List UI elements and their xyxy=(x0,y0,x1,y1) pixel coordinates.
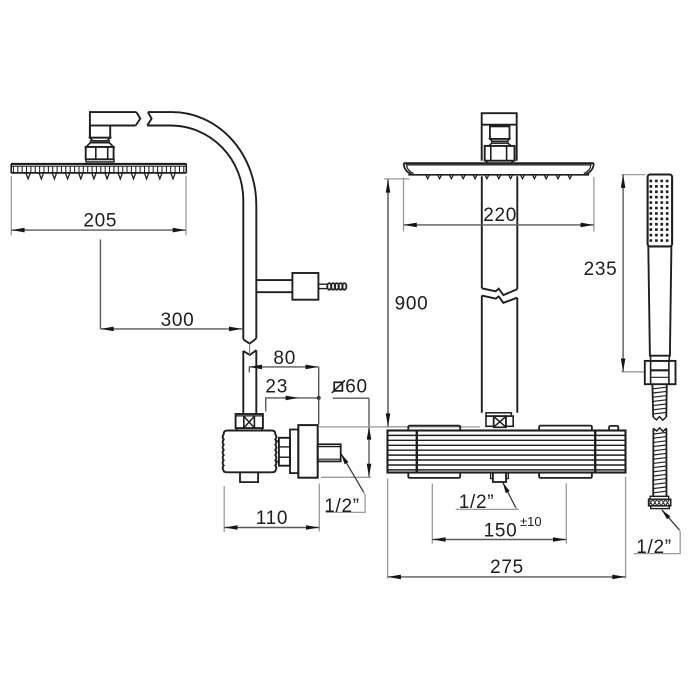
dimension 220 line with arrows xyxy=(404,224,594,226)
dimension 80 line with arrows xyxy=(249,366,319,368)
valve bottom foot (side view) xyxy=(240,472,258,482)
hand shower holder branch (side view) xyxy=(256,273,327,300)
mixer connection nut with cross (front view) xyxy=(486,413,513,428)
svg-text:275: 275 xyxy=(490,557,524,578)
dimension 60 leader and arrows xyxy=(333,397,369,399)
riser pipe lower segment (side view) xyxy=(242,351,244,414)
shower head plate (side view) xyxy=(11,164,187,179)
valve outlet hex nut (side view) xyxy=(276,438,290,466)
mixer small tab top right end xyxy=(609,426,618,431)
svg-text:110: 110 xyxy=(256,508,288,529)
svg-text:205: 205 xyxy=(83,211,117,232)
pipe break symbol (front view riser) xyxy=(482,288,518,295)
svg-text:1/2”: 1/2” xyxy=(324,496,360,517)
valve spacer ring (side view) xyxy=(290,430,298,474)
svg-text:300: 300 xyxy=(161,310,195,331)
mixer wall bracket top left xyxy=(408,426,460,431)
mixer wall bracket bottom right xyxy=(539,473,592,478)
dimension 275 extension lines xyxy=(387,479,389,579)
dimension 900 top tick gray line xyxy=(384,178,410,180)
svg-text:1/2”: 1/2” xyxy=(636,537,672,558)
threaded nipple coils on holder xyxy=(327,283,346,290)
svg-text:1/2”: 1/2” xyxy=(459,492,495,513)
dimension 300 line with arrows xyxy=(100,328,242,330)
svg-text:23: 23 xyxy=(265,377,288,398)
flexible hose upper segment xyxy=(652,384,666,417)
hose break symbol xyxy=(653,417,666,421)
svg-text:220: 220 xyxy=(483,205,517,226)
dimension 205 line with arrows xyxy=(11,229,186,231)
ceiling mount column (front view) xyxy=(482,113,517,161)
svg-text:±10: ±10 xyxy=(520,514,542,529)
shower head connection nut (side view) xyxy=(86,126,114,162)
wall escutcheon diam 60 (side view) xyxy=(298,425,317,478)
valve knurled body (side view) xyxy=(223,431,277,473)
dimension 900 bottom tick gray line xyxy=(384,426,480,428)
dimension 235 line with arrows xyxy=(622,175,624,372)
hose end fitting knurled nut 1/2 inch xyxy=(649,496,671,508)
hand shower handle xyxy=(648,246,671,355)
outlet nipple 1/2 inch (side view) xyxy=(318,444,341,461)
dimension 205 extension lines xyxy=(10,176,12,235)
ceiling connector and nut (front view) xyxy=(485,126,515,163)
riser pipe lower segment (front view) xyxy=(481,296,483,413)
leader 1/2 inch (side view outlet) xyxy=(341,454,363,492)
flexible hose lower segment xyxy=(653,428,666,496)
mixer wall bracket top right xyxy=(539,426,592,431)
svg-text:150: 150 xyxy=(484,520,518,541)
riser pipe upper segment (front view) xyxy=(481,176,483,288)
svg-text:80: 80 xyxy=(273,348,296,369)
svg-text:900: 900 xyxy=(395,294,429,315)
mixer wall bracket bottom left xyxy=(408,473,460,478)
svg-text:60: 60 xyxy=(345,377,368,398)
leader 1/2 inch (hose end) xyxy=(662,510,680,530)
leader 1/2 inch (mixer outlet) xyxy=(503,483,516,508)
dimension 300 connector line xyxy=(99,240,101,329)
shower arm curve into vertical pipe (side view) xyxy=(148,112,256,338)
shower arm horizontal segment with break (side view) xyxy=(90,112,152,138)
svg-text:235: 235 xyxy=(584,259,618,280)
hand shower connector block xyxy=(645,361,676,384)
dimension 150 extension lines xyxy=(431,484,433,544)
dimension 110 extension lines xyxy=(223,486,225,532)
dimension 220 extension lines xyxy=(403,178,405,232)
shower head plate (front view) xyxy=(404,163,594,178)
dimension 900 line with arrows xyxy=(387,179,389,426)
dimension square-60 symbol and text xyxy=(332,380,345,393)
dimension 110 line with arrows xyxy=(224,527,319,529)
dimension 275 line with arrows xyxy=(388,576,626,578)
dimension 150 line with arrows xyxy=(432,539,566,541)
valve connection nut with cross (side view) xyxy=(236,414,263,430)
dimension 235 ticks gray xyxy=(622,174,646,176)
dimension 60 extension lines gray xyxy=(319,426,409,428)
hand shower spray face dots xyxy=(650,180,669,242)
thermostatic mixer bar (front view) xyxy=(388,431,626,473)
dimension 23 line with arrow and dot xyxy=(266,398,319,412)
pipe break symbol (side view riser) xyxy=(243,338,256,343)
hand shower handle step xyxy=(651,356,670,361)
mixer bottom outlet 1/2 inch (front view) xyxy=(491,473,509,483)
hand shower head (right side) xyxy=(648,175,673,247)
